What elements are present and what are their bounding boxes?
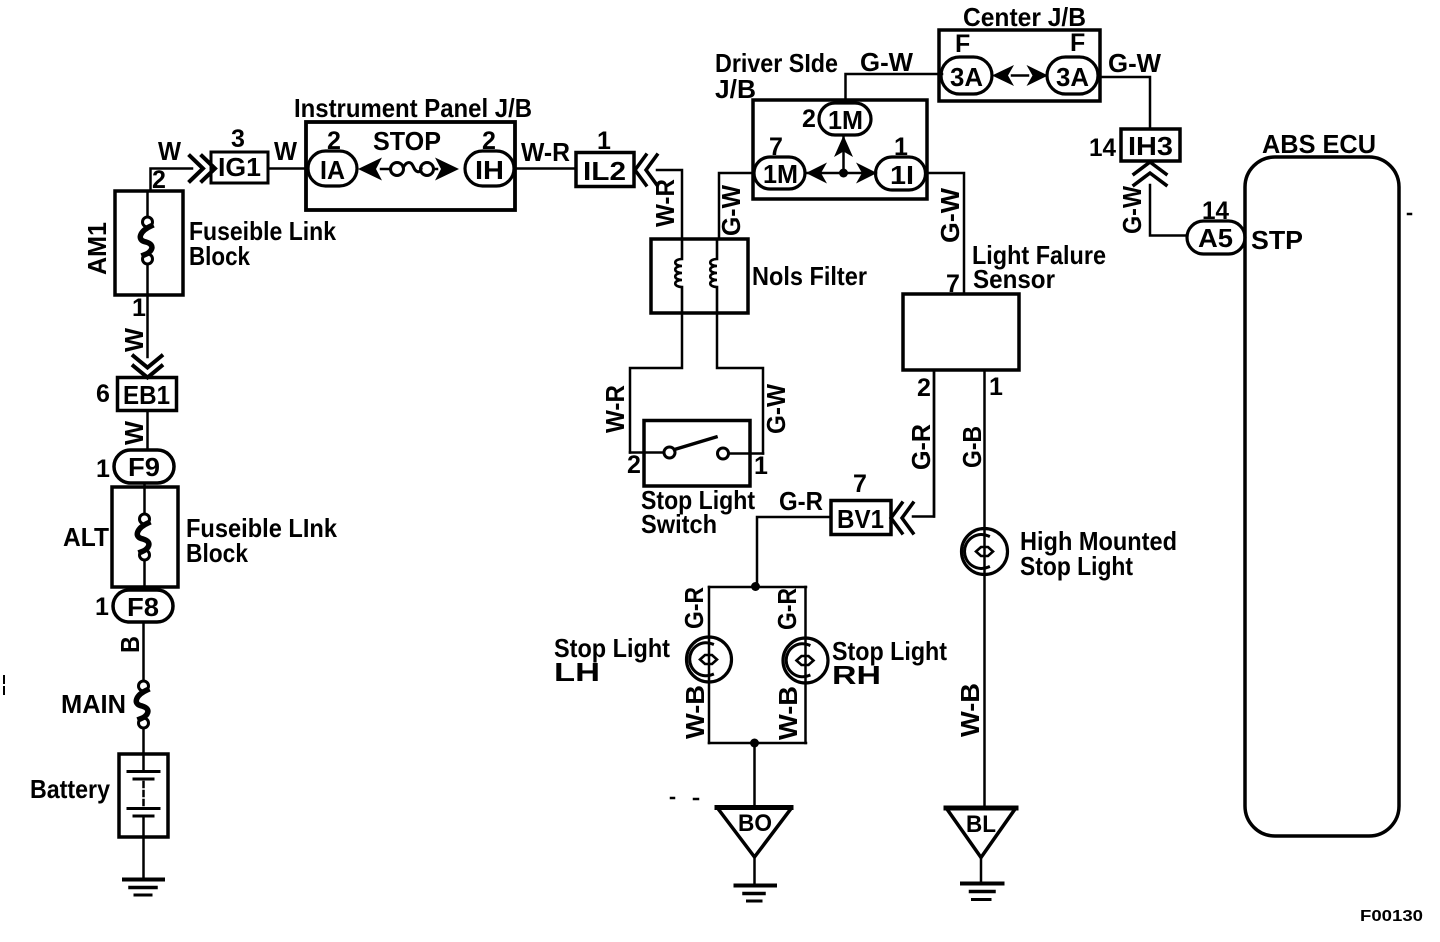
- junction block Center J/B: [939, 30, 1100, 101]
- junction block Driver Side J/B: [753, 100, 927, 199]
- battery: [119, 754, 168, 837]
- svg-text:Block: Block: [186, 538, 248, 568]
- svg-text:W-B: W-B: [955, 683, 985, 737]
- node junction bottom of lamp circuit: [750, 739, 759, 748]
- wire lamps node to BV1: [757, 517, 831, 587]
- svg-text:G-W: G-W: [716, 185, 746, 236]
- connector IL2: [576, 153, 634, 187]
- svg-text:Switch: Switch: [641, 509, 717, 539]
- svg-text:1I: 1I: [890, 160, 914, 190]
- svg-text:G-B: G-B: [957, 426, 987, 468]
- left margin tick: [3, 676, 5, 694]
- svg-text:G-W: G-W: [935, 188, 965, 243]
- connector 1M top: [819, 103, 871, 135]
- svg-text:BL: BL: [966, 811, 996, 838]
- connector chevrons after IL2: [635, 155, 657, 185]
- svg-text:EB1: EB1: [123, 380, 170, 410]
- wire inside AM1: [146, 191, 149, 295]
- wire W from AM1 to IG1: [151, 169, 193, 192]
- connector IH3: [1121, 129, 1180, 161]
- ground (BO): [736, 884, 776, 888]
- wire IH3 to A5: [1150, 185, 1187, 236]
- svg-text:LH: LH: [554, 657, 600, 687]
- connector chevrons below IH3: [1134, 162, 1166, 185]
- wire 3A to IH3: [1098, 77, 1150, 129]
- wire RH lamp down: [804, 683, 807, 743]
- ground triangle BO: [717, 805, 791, 810]
- wire lamp parallel bottom: [709, 742, 806, 745]
- svg-text:Center J/B: Center J/B: [963, 2, 1086, 32]
- connector IG1: [211, 152, 268, 183]
- wire inside ALT: [143, 483, 146, 590]
- connector A5: [1187, 221, 1245, 254]
- svg-text:B: B: [115, 636, 145, 653]
- svg-text:Battery: Battery: [30, 774, 110, 804]
- svg-text:3A: 3A: [950, 62, 983, 92]
- svg-text:ALT: ALT: [63, 522, 109, 552]
- ABS ECU box: [1245, 157, 1399, 836]
- fusible link AM1: [143, 217, 153, 227]
- svg-text:IG1: IG1: [218, 152, 261, 182]
- connector chevrons after BV1: [891, 503, 913, 533]
- svg-text:BO: BO: [738, 810, 772, 837]
- wire to stop light RH: [804, 587, 807, 683]
- svg-text:1: 1: [132, 294, 146, 322]
- svg-text:Block: Block: [189, 241, 250, 271]
- arrow right (IH): [435, 158, 459, 181]
- svg-text:IH3: IH3: [1128, 131, 1173, 161]
- svg-text:F: F: [1070, 29, 1085, 57]
- svg-text:W-R: W-R: [521, 137, 570, 167]
- svg-text:W-R: W-R: [650, 179, 680, 227]
- svg-text:IL2: IL2: [583, 156, 626, 186]
- connector IA: [308, 151, 357, 186]
- wire 1M top to junction: [842, 135, 845, 173]
- svg-text:1M: 1M: [763, 159, 798, 189]
- wire to stop light LH: [708, 587, 711, 682]
- svg-text:1: 1: [95, 593, 109, 621]
- wire BV1 to sensor pin 2: [913, 370, 934, 517]
- svg-text:2: 2: [917, 374, 931, 402]
- svg-text:W-R: W-R: [600, 385, 630, 433]
- svg-text:BV1: BV1: [837, 504, 884, 534]
- wire noise filter to switch pin 2: [630, 313, 682, 453]
- fusible link block AM1: [115, 191, 183, 295]
- arrow right (1I): [856, 163, 877, 184]
- wire F8 to MAIN: [142, 622, 145, 681]
- speck dots: [671, 798, 698, 799]
- svg-text:1M: 1M: [828, 105, 863, 135]
- arrow left (IA): [358, 158, 382, 181]
- stop light switch box: [644, 421, 750, 487]
- svg-text:W: W: [119, 328, 149, 352]
- lamp Stop Light LH: [687, 637, 732, 682]
- svg-text:G-R: G-R: [772, 588, 802, 630]
- svg-text:6: 6: [96, 380, 110, 408]
- svg-text:1: 1: [96, 455, 110, 483]
- wire noise filter to switch pin 1: [717, 313, 763, 454]
- svg-text:ABS ECU: ABS ECU: [1262, 129, 1376, 159]
- svg-text:G-R: G-R: [679, 587, 709, 629]
- connector chevrons to IG1: [190, 156, 215, 181]
- connector 1M left: [754, 157, 805, 189]
- noise filter box: [651, 239, 748, 313]
- svg-text:W-B: W-B: [773, 686, 803, 740]
- connector EB1: [118, 378, 177, 411]
- svg-text:W: W: [274, 136, 297, 166]
- coil right in noise filter: [710, 239, 717, 313]
- arrow up to 1M: [834, 136, 853, 158]
- wire IG1 to Instrument Panel J/B: [268, 167, 306, 170]
- connector chevrons down to EB1: [134, 356, 162, 378]
- fuse F9: [114, 450, 174, 483]
- svg-text:F9: F9: [128, 452, 160, 482]
- wire 1M top to Center J/B: [846, 74, 943, 103]
- svg-text:3A: 3A: [1056, 62, 1089, 92]
- switch lever: [675, 437, 717, 450]
- svg-text:IH: IH: [475, 155, 504, 185]
- fuse STOP element: [381, 168, 390, 171]
- wire to ground BO: [753, 743, 756, 806]
- arrow left (3A): [992, 65, 1014, 86]
- speck dot right of ECU: [1408, 213, 1411, 216]
- wire between 1M and 1I: [805, 172, 876, 175]
- wire 1M left to noise filter: [719, 173, 754, 239]
- svg-text:Stop Light: Stop Light: [1020, 551, 1133, 581]
- wire LH lamp down: [708, 682, 711, 743]
- svg-text:G-R: G-R: [906, 424, 936, 470]
- fuse 3A left: [941, 57, 992, 94]
- coil left in noise filter: [675, 239, 682, 313]
- svg-text:14: 14: [1089, 134, 1116, 162]
- svg-text:F00130: F00130: [1360, 908, 1423, 925]
- wire IH to IL2: [515, 167, 576, 170]
- arrow left (1M): [806, 163, 827, 184]
- ground triangle BL: [946, 806, 1016, 811]
- wire EB1 to F9: [146, 411, 149, 451]
- light failure sensor box: [903, 294, 1019, 370]
- svg-text:Sensor: Sensor: [973, 264, 1055, 294]
- wire MAIN to battery: [142, 728, 145, 754]
- svg-text:STOP: STOP: [373, 126, 441, 156]
- arrow right (3A): [1027, 65, 1049, 86]
- node junction top of lamp circuit: [751, 582, 760, 591]
- svg-text:J/B: J/B: [715, 74, 756, 104]
- svg-text:AM1: AM1: [82, 222, 112, 275]
- wire lamp down to BL: [983, 575, 986, 807]
- svg-text:G-W: G-W: [1117, 186, 1147, 234]
- fusible link MAIN: [139, 681, 149, 691]
- svg-text:G-W: G-W: [1108, 48, 1161, 78]
- fuse 3A right: [1047, 57, 1098, 94]
- svg-text:2: 2: [627, 451, 641, 479]
- wire battery to ground: [142, 837, 145, 878]
- svg-text:F: F: [955, 30, 970, 58]
- svg-text:7: 7: [853, 470, 867, 498]
- svg-text:1: 1: [754, 452, 768, 480]
- ground (battery): [124, 878, 163, 882]
- fusible link ALT: [140, 514, 150, 524]
- svg-text:Instrument Panel J/B: Instrument Panel J/B: [294, 93, 532, 123]
- svg-text:W: W: [119, 421, 149, 445]
- wire AM1 to EB1: [146, 295, 149, 357]
- svg-text:F8: F8: [127, 592, 159, 622]
- fusible link block ALT: [112, 487, 178, 587]
- svg-text:A5: A5: [1198, 223, 1233, 253]
- wire sensor pin 1 down (G-B): [983, 370, 986, 575]
- wire between 3A fuses: [1012, 74, 1028, 77]
- node junction in Driver Side J/B: [839, 169, 848, 178]
- wire BL to ground: [980, 858, 983, 883]
- switch contacts: [630, 453, 763, 454]
- wire sensor pin 2 down (G-R): [933, 370, 936, 517]
- fuse F8: [113, 590, 173, 622]
- wire 1I to light failure sensor: [926, 173, 964, 294]
- lamp High Mounted Stop Light: [962, 529, 1008, 575]
- svg-text:2: 2: [802, 105, 816, 133]
- ground (BL): [962, 882, 1003, 886]
- svg-text:IA: IA: [320, 155, 345, 185]
- svg-text:G-W: G-W: [860, 47, 913, 77]
- connector BV1: [831, 501, 891, 535]
- wire BO to ground: [753, 857, 756, 884]
- junction block Instrument Panel J/B: [306, 122, 515, 210]
- connector IH: [465, 151, 514, 186]
- lamp Stop Light RH: [783, 638, 828, 683]
- wire IL2 to noise filter: [657, 170, 682, 239]
- svg-text:W: W: [158, 136, 181, 166]
- svg-text:1: 1: [989, 373, 1003, 401]
- svg-text:3: 3: [231, 125, 245, 153]
- svg-text:G-R: G-R: [779, 486, 823, 516]
- svg-text:MAIN: MAIN: [61, 689, 126, 719]
- svg-text:Nols Filter: Nols Filter: [752, 261, 867, 291]
- svg-text:W-B: W-B: [680, 685, 710, 739]
- svg-text:RH: RH: [832, 660, 881, 690]
- svg-text:STP: STP: [1251, 225, 1303, 255]
- wire lamp parallel top: [709, 586, 806, 589]
- connector 1I: [876, 157, 926, 190]
- svg-text:G-W: G-W: [761, 384, 791, 434]
